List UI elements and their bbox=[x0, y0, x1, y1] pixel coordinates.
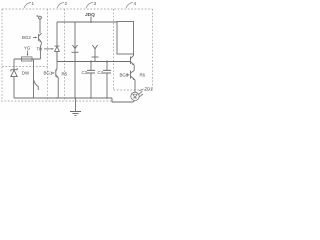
svg-text:C4: C4 bbox=[98, 70, 104, 75]
svg-text:BG3: BG3 bbox=[120, 72, 129, 77]
svg-text:BG1: BG1 bbox=[44, 71, 53, 76]
svg-text:R5: R5 bbox=[62, 71, 68, 76]
svg-text:YG: YG bbox=[24, 46, 31, 51]
svg-text:4: 4 bbox=[134, 1, 137, 6]
svg-text:R6: R6 bbox=[140, 72, 146, 77]
svg-text:DW: DW bbox=[22, 70, 30, 75]
svg-text:3: 3 bbox=[94, 1, 97, 6]
svg-text:JDQ: JDQ bbox=[85, 12, 95, 18]
svg-text:1: 1 bbox=[32, 1, 35, 6]
svg-text:2: 2 bbox=[65, 1, 68, 6]
svg-text:C3: C3 bbox=[82, 70, 88, 75]
svg-text:BG2: BG2 bbox=[22, 35, 31, 40]
svg-text:TH: TH bbox=[37, 47, 43, 52]
svg-text:ZD1: ZD1 bbox=[145, 86, 154, 91]
